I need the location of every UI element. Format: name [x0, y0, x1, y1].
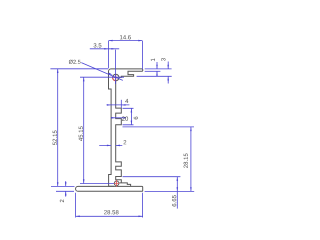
dim 3 line segments: [167, 62, 169, 84]
dim 28.15/6.65 bottom extension: [145, 190, 195, 192]
dim 28.15 top extension: [123, 126, 195, 128]
text 3: [161, 58, 165, 61]
dim 28.58 line: [76, 215, 143, 217]
dim 20 line: [111, 117, 125, 119]
arrows 3.5 outside: [104, 48, 108, 50]
red screw hole at foot: [114, 181, 119, 186]
arrow leader O2.5: [108, 73, 112, 76]
red lower-left arc of screw hole: [113, 76, 115, 80]
arrows 52.15: [57, 69, 59, 73]
text 52.15: [53, 130, 57, 145]
dim 2 wall leader lines: [99, 144, 122, 146]
bottom plate: [76, 186, 143, 191]
dim 1 bottom extension: [145, 70, 161, 72]
dim 6 extensions: [123, 108, 134, 125]
text 28.15: [184, 153, 188, 167]
text 1: [151, 59, 155, 62]
leader O2.5: [81, 63, 123, 81]
dim 45.15 line: [83, 77, 85, 183]
dim 6.65 top extension: [123, 176, 181, 178]
arrows 14.6: [108, 40, 112, 42]
dim 3 bottom extension: [137, 75, 172, 77]
screw hole O2.5 top: [113, 74, 119, 80]
text 2: [124, 140, 127, 144]
arrows plate 2: [65, 182, 67, 186]
arrows 20 outside: [111, 117, 115, 119]
profile outer wall, top flange and hook: [109, 69, 143, 186]
text 3.5: [94, 43, 102, 47]
text 6: [134, 117, 138, 120]
text 14.6: [120, 35, 131, 39]
arrows 28.58: [76, 216, 80, 218]
red centreline of screw hole: [114, 74, 118, 81]
dim 45.15 top extension: [80, 76, 124, 78]
arrows 6: [131, 108, 133, 112]
text Ø2.5: [69, 60, 81, 64]
dim 6.65 line with tail: [176, 177, 178, 209]
arrows 28.15: [190, 127, 192, 131]
arrows 1: [156, 65, 158, 69]
arrows 4: [107, 104, 111, 106]
arrows 3: [167, 65, 169, 69]
dim 28.15 line: [190, 127, 192, 191]
text 4: [125, 99, 128, 103]
dim 6 line: [130, 108, 132, 125]
dim 52.15 line: [57, 69, 59, 187]
dim 14.6 extension lines: [108, 41, 142, 69]
dim 52.15/2 bottom extensions: [51, 186, 75, 191]
dim 28.58 extensions: [76, 193, 143, 218]
text 20: [122, 117, 128, 121]
red cross of foot hole: [114, 180, 119, 187]
dim 45.15 bottom extension: [80, 183, 114, 185]
dim 1/3 shared top extension: [145, 68, 172, 70]
arrows 45.15: [83, 77, 85, 81]
text 6.65: [172, 195, 176, 206]
text 28.58: [104, 210, 118, 214]
arrows 6.65: [177, 177, 179, 181]
dim 52.15 top extension: [50, 68, 108, 70]
text 2: [60, 200, 64, 203]
dim 4 line: [107, 104, 130, 106]
dim 4 extension: [120, 100, 122, 108]
dim 2 plate line segments: [65, 181, 67, 197]
dim 3.5 line: [90, 48, 119, 50]
dim 1 line segments: [156, 62, 158, 76]
profile inner wall with clip teeth and foot step: [116, 81, 131, 186]
dim 3.5 right extension: [115, 50, 117, 84]
dim 14.6 line: [108, 40, 142, 42]
arrows wall 2: [107, 145, 111, 147]
text 45.15: [79, 126, 83, 141]
